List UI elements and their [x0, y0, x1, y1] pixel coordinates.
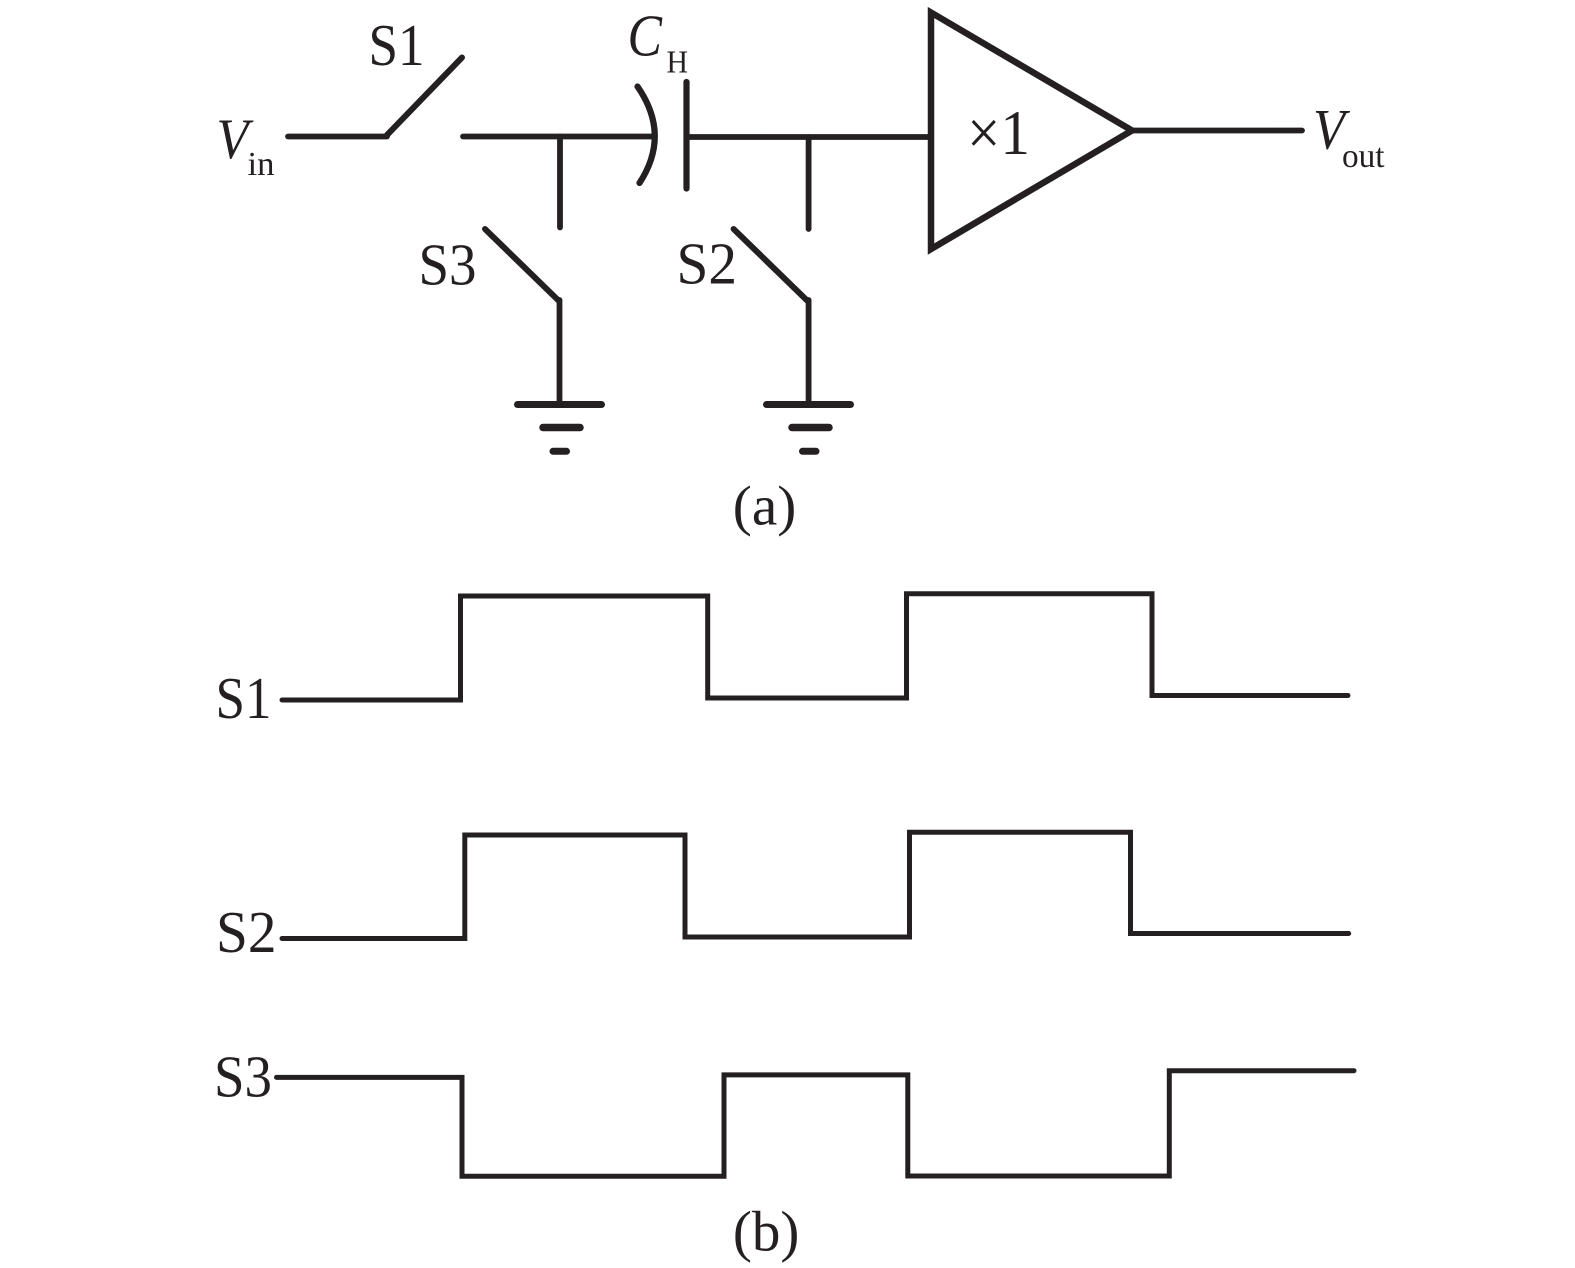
svg-text:out: out	[1342, 138, 1385, 175]
node B junction to S2	[806, 137, 812, 229]
ground 2	[767, 405, 851, 452]
svg-text:S2: S2	[677, 231, 738, 297]
waveform S3 trace	[277, 1071, 1355, 1177]
capacitor C_H flat plate	[683, 82, 689, 189]
svg-text:S1: S1	[216, 665, 272, 731]
wire op-amp to Vout	[1133, 128, 1302, 134]
node Vout label	[1313, 99, 1385, 175]
node Vin label	[217, 108, 275, 183]
capacitor C_H value label	[628, 3, 689, 80]
node A junction to S3	[557, 137, 563, 228]
svg-text:S3: S3	[214, 1044, 272, 1110]
wire capacitor to op-amp	[687, 134, 932, 140]
svg-text:S2: S2	[216, 899, 277, 965]
switch S2 stem wire	[806, 300, 812, 403]
svg-text:H: H	[667, 44, 689, 80]
svg-text:in: in	[248, 146, 275, 183]
switch S3 blade	[485, 229, 559, 301]
wire S1 to capacitor	[463, 134, 652, 140]
wire Vin to S1	[288, 134, 387, 140]
svg-text:S1: S1	[369, 12, 425, 78]
waveform S2 trace	[282, 832, 1349, 938]
svg-text:(b): (b)	[733, 1201, 800, 1264]
switch S2 blade	[734, 229, 808, 301]
svg-text:(a): (a)	[733, 476, 797, 538]
svg-text:C: C	[628, 3, 663, 69]
svg-text:×1: ×1	[967, 98, 1030, 168]
svg-text:S3: S3	[419, 232, 477, 298]
capacitor C_H curved plate	[638, 87, 655, 184]
ground 1	[518, 405, 602, 452]
switch S1 blade	[387, 58, 462, 136]
switch S3 stem wire	[557, 300, 563, 403]
op-amp U1 buffer triangle	[931, 13, 1132, 250]
waveform S1 trace	[282, 594, 1348, 700]
